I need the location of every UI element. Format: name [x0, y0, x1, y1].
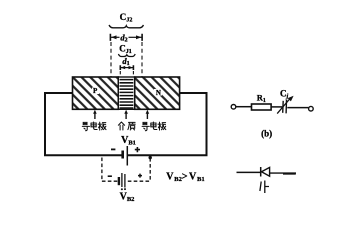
dashed wire left to VB2 — [101, 158, 103, 182]
svg-text:CJ2: CJ2 — [120, 12, 133, 24]
plus sign VB2 — [138, 174, 142, 178]
plus sign VB1 — [135, 147, 140, 152]
label VB1 — [121, 135, 136, 147]
wire to R1 — [236, 106, 252, 108]
svg-text:>: > — [182, 171, 188, 182]
svg-text:B1: B1 — [197, 176, 205, 183]
brace CJ2 — [109, 25, 144, 28]
svg-text:V: V — [166, 172, 174, 183]
wire right loop — [127, 93, 206, 155]
battery VB1 — [123, 146, 128, 166]
wire Cj to terminal — [287, 107, 308, 109]
terminal left (b) — [231, 105, 236, 110]
varactor capacitor mark — [260, 181, 269, 194]
label d1 — [122, 56, 129, 67]
varactor wire left — [237, 171, 262, 173]
label VB2 greater than VB1 — [166, 171, 204, 183]
svg-text:CJ1: CJ1 — [119, 43, 132, 55]
arrow to dielectric — [124, 110, 128, 119]
svg-text:VB1: VB1 — [121, 135, 136, 147]
wire left loop — [45, 93, 122, 155]
label conductive-plate right (dao dian ban) — [142, 122, 166, 131]
dashed wire bottom VB2 — [102, 180, 150, 182]
svg-text:d2: d2 — [120, 32, 127, 43]
svg-text:P: P — [93, 87, 98, 95]
minus sign VB1 — [111, 148, 115, 150]
label (b) — [261, 129, 272, 139]
arrow to right plate — [146, 110, 150, 119]
brace CJ1 — [118, 54, 135, 57]
svg-text:V: V — [189, 172, 197, 183]
varactor wire right — [270, 172, 296, 175]
svg-text:N: N — [156, 89, 161, 97]
svg-text:R1: R1 — [257, 93, 266, 104]
label CJ2 — [120, 12, 133, 24]
varactor diode triangle — [262, 167, 270, 176]
wire R1 to Cj — [271, 106, 282, 108]
depletion region (dielectric) — [118, 77, 134, 109]
svg-text:(b): (b) — [261, 129, 272, 139]
arrow to left plate — [93, 110, 97, 119]
dashed wire right to VB2 — [149, 158, 151, 181]
label N — [154, 89, 162, 97]
capacitor Cj — [277, 88, 293, 113]
resistor R1 — [252, 93, 272, 110]
junction node — [149, 156, 152, 159]
varactor cathode bar — [260, 167, 262, 177]
leader ticks d1 — [120, 71, 133, 77]
dimension d1 — [120, 65, 133, 70]
label VB2 — [120, 192, 135, 204]
dimension d2 — [110, 32, 142, 43]
label CJ1 — [119, 43, 132, 55]
svg-text:Cj: Cj — [280, 88, 289, 99]
label conductive-plate left (dao dian ban) — [82, 122, 106, 131]
svg-text:d1: d1 — [122, 56, 129, 67]
svg-text:VB2: VB2 — [120, 192, 135, 204]
label dielectric (jie zhi) — [118, 122, 135, 130]
label P — [92, 87, 99, 95]
dashed leader lines d2 — [111, 42, 142, 77]
N region — [135, 77, 180, 109]
minus sign VB2 — [108, 175, 112, 177]
battery VB2 — [119, 173, 126, 190]
P region — [73, 77, 119, 109]
terminal right (b) — [309, 106, 314, 111]
